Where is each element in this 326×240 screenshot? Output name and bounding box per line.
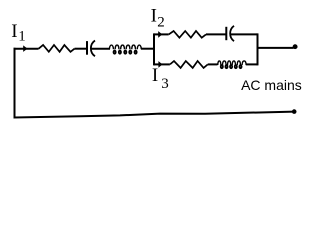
svg-text:AC mains: AC mains — [241, 77, 302, 93]
svg-text:3: 3 — [161, 76, 169, 92]
svg-text:I: I — [151, 6, 157, 27]
svg-text:1: 1 — [18, 29, 26, 45]
svg-text:I: I — [11, 21, 17, 42]
svg-text:2: 2 — [157, 15, 165, 31]
svg-text:I: I — [152, 65, 158, 86]
